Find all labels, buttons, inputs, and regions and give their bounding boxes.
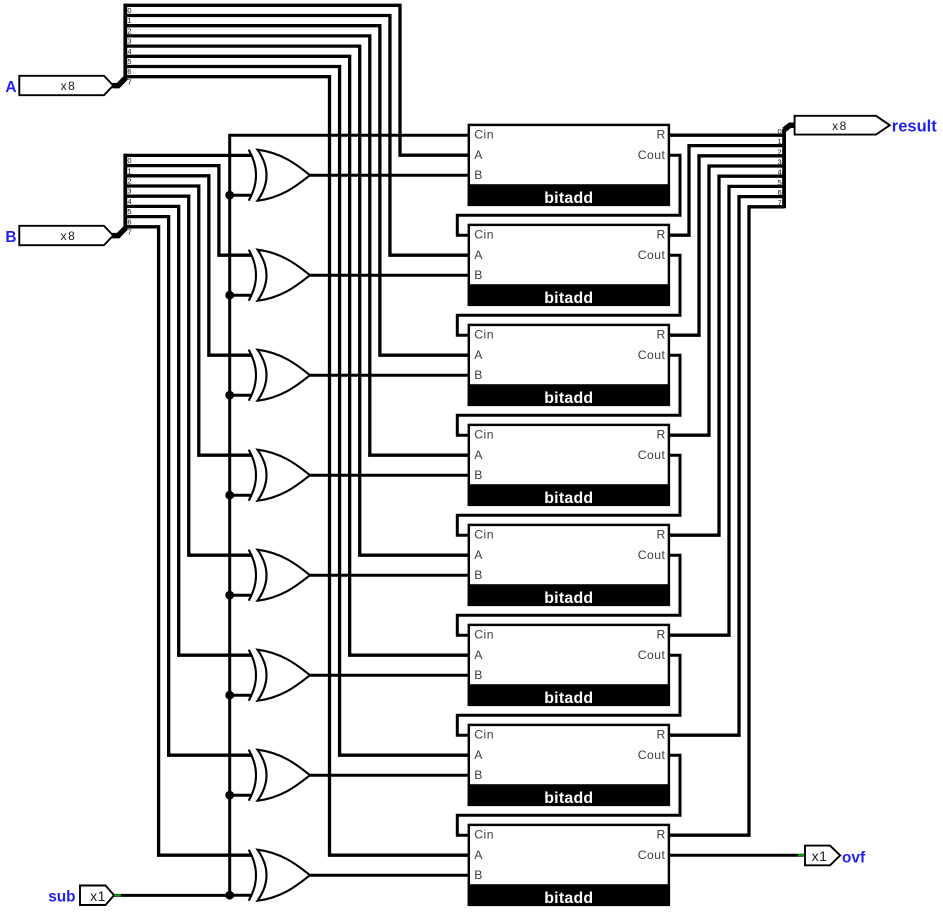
svg-text:4: 4	[127, 197, 131, 206]
wire A4 (splitter to bitadd5 A input)	[124, 46, 470, 555]
sub pin connection point	[114, 894, 121, 896]
wire S5 (XOR X6 output to bitadd6 B input)	[310, 674, 470, 677]
svg-text:0: 0	[127, 156, 131, 165]
splitter A (1 to 8 fan-out)	[112, 4, 126, 86]
junction sub to XOR X3 bottom input	[225, 391, 252, 400]
output pin result (8-bit)	[795, 116, 890, 135]
svg-text:Cout: Cout	[638, 148, 666, 162]
wire C7 (U7 Cout to U8 Cin)	[457, 755, 680, 835]
svg-text:3: 3	[127, 187, 131, 196]
svg-text:7: 7	[777, 198, 781, 207]
svg-text:Cin: Cin	[474, 828, 494, 842]
svg-text:bitadd: bitadd	[544, 190, 593, 207]
pin label ovf	[842, 850, 866, 867]
svg-text:2: 2	[127, 177, 131, 186]
svg-text:ovf: ovf	[842, 850, 866, 867]
wire A7 (splitter to bitadd8 A input)	[124, 77, 470, 856]
svg-text:A: A	[474, 148, 483, 162]
svg-text:1: 1	[777, 137, 781, 146]
svg-text:bitadd: bitadd	[544, 290, 593, 307]
wire C5 (U5 Cout to U6 Cin)	[457, 555, 680, 635]
svg-text:R: R	[656, 228, 665, 242]
svg-text:4: 4	[127, 47, 131, 56]
xor gate X2	[249, 250, 310, 301]
svg-text:R: R	[656, 528, 665, 542]
wire B3 (splitter to XOR X4 top input)	[124, 186, 252, 455]
wire R6 (U7 R output to result splitter)	[668, 197, 784, 736]
wire S2 (XOR X3 output to bitadd3 B input)	[310, 374, 470, 377]
svg-text:x1: x1	[812, 848, 828, 864]
wire R1 (U2 R output to result splitter)	[668, 146, 784, 236]
wire S6 (XOR X7 output to bitadd7 B input)	[310, 774, 470, 777]
svg-text:Cin: Cin	[474, 328, 494, 342]
xor gate X8	[249, 850, 310, 901]
wire A5 (splitter to bitadd6 A input)	[124, 56, 470, 655]
svg-text:x1: x1	[90, 888, 106, 904]
input pin B (8-bit)	[19, 226, 113, 245]
junction sub to XOR X2 bottom input	[225, 291, 252, 300]
svg-text:6: 6	[127, 217, 131, 226]
subcircuit U2 bitadd	[468, 225, 670, 307]
xor gate X4	[249, 450, 310, 501]
wire S4 (XOR X5 output to bitadd5 B input)	[310, 574, 470, 577]
svg-text:5: 5	[127, 57, 131, 66]
svg-text:A: A	[5, 79, 16, 96]
wire OVF (U8 Cout to ovf pin)	[668, 854, 806, 857]
svg-text:sub: sub	[48, 888, 75, 905]
svg-text:bitadd: bitadd	[544, 590, 593, 607]
svg-text:x8: x8	[61, 229, 77, 243]
svg-text:R: R	[656, 828, 665, 842]
wire sub net (sub pin up to bitadd1 Cin)	[113, 135, 469, 895]
wire A1 (splitter to bitadd2 A input)	[124, 16, 470, 256]
junction sub to XOR X7 bottom input	[225, 791, 252, 800]
wire B6 (splitter to XOR X7 top input)	[124, 217, 252, 756]
pin label A	[5, 79, 16, 96]
subcircuit U6 bitadd	[468, 625, 670, 707]
svg-text:bitadd: bitadd	[544, 890, 593, 907]
wire B0 (splitter to XOR X1 top input)	[124, 154, 252, 157]
junction sub to XOR X4 bottom input	[225, 491, 252, 500]
splitter result bit index labels 0-7	[777, 127, 781, 207]
input pin A (8-bit)	[19, 76, 113, 95]
junction sub to XOR X5 bottom input	[225, 591, 252, 600]
svg-text:Cin: Cin	[474, 528, 494, 542]
xor gate X1	[249, 150, 310, 201]
wire R2 (U3 R output to result splitter)	[668, 156, 784, 335]
svg-text:B: B	[474, 468, 482, 482]
splitter B (1 to 8 fan-out)	[112, 154, 126, 236]
ovf pin connection point	[798, 854, 805, 856]
wire B5 (splitter to XOR X6 top input)	[124, 206, 252, 655]
svg-text:R: R	[656, 728, 665, 742]
wire B1 (splitter to XOR X2 top input)	[124, 166, 252, 256]
svg-text:B: B	[474, 768, 482, 782]
svg-text:Cout: Cout	[638, 448, 666, 462]
wire C2 (U2 Cout to U3 Cin)	[457, 255, 680, 335]
svg-text:bitadd: bitadd	[544, 490, 593, 507]
wire C3 (U3 Cout to U4 Cin)	[457, 355, 680, 435]
svg-text:1: 1	[127, 166, 131, 175]
svg-text:x8: x8	[832, 119, 848, 133]
output pin ovf (1-bit)	[805, 846, 840, 866]
input pin sub (1-bit)	[80, 886, 114, 906]
xor gate X6	[249, 650, 310, 701]
wire A0 (splitter to bitadd1 A input)	[124, 5, 470, 155]
svg-text:A: A	[474, 348, 483, 362]
wire A6 (splitter to bitadd7 A input)	[124, 67, 470, 756]
xor gate X7	[249, 750, 310, 801]
svg-text:R: R	[656, 628, 665, 642]
svg-text:B: B	[474, 568, 482, 582]
svg-text:Cin: Cin	[474, 428, 494, 442]
wire C1 (U1 Cout to U2 Cin)	[457, 155, 680, 235]
svg-text:Cout: Cout	[638, 848, 666, 862]
junction sub to XOR X1 bottom input	[225, 191, 252, 200]
wire B2 (splitter to XOR X3 top input)	[124, 176, 252, 355]
wire R3 (U4 R output to result splitter)	[668, 166, 784, 435]
svg-text:3: 3	[127, 37, 131, 46]
splitter result (8 to 1 fan-in)	[784, 125, 796, 208]
wire R5 (U6 R output to result splitter)	[668, 186, 784, 635]
svg-text:A: A	[474, 848, 483, 862]
wire C6 (U6 Cout to U7 Cin)	[457, 655, 680, 735]
pin label result	[892, 118, 937, 136]
svg-text:bitadd: bitadd	[544, 690, 593, 707]
svg-text:R: R	[656, 428, 665, 442]
svg-text:0: 0	[127, 6, 131, 15]
svg-text:Cout: Cout	[638, 748, 666, 762]
xor gate X5	[249, 550, 310, 601]
junction sub to XOR X8 bottom input	[225, 891, 252, 900]
svg-text:7: 7	[127, 77, 131, 86]
svg-text:Cout: Cout	[638, 248, 666, 262]
subcircuit U3 bitadd	[468, 325, 670, 407]
svg-text:4: 4	[777, 168, 781, 177]
junction sub to XOR X6 bottom input	[225, 691, 252, 700]
wire R7 (U8 R output to result splitter)	[668, 207, 784, 835]
wire S0 (XOR X1 output to bitadd1 B input)	[310, 174, 470, 177]
svg-text:B: B	[474, 368, 482, 382]
svg-text:2: 2	[127, 26, 131, 35]
svg-text:A: A	[474, 448, 483, 462]
splitter B bit index labels 0-7	[127, 156, 131, 236]
svg-text:2: 2	[777, 147, 781, 156]
svg-text:B: B	[474, 268, 482, 282]
wire S7 (XOR X8 output to bitadd8 B input)	[310, 874, 470, 877]
subcircuit U7 bitadd	[468, 725, 670, 807]
svg-text:3: 3	[777, 158, 781, 167]
wire R4 (U5 R output to result splitter)	[668, 176, 784, 535]
svg-text:Cin: Cin	[474, 128, 494, 142]
svg-text:6: 6	[127, 67, 131, 76]
svg-text:result: result	[892, 118, 937, 136]
subcircuit U4 bitadd	[468, 425, 670, 507]
xor gate X3	[249, 350, 310, 401]
pin label B	[5, 229, 16, 246]
svg-text:bitadd: bitadd	[544, 790, 593, 807]
svg-text:5: 5	[777, 178, 781, 187]
subcircuit U8 bitadd	[468, 825, 670, 907]
splitter A bit index labels 0-7	[127, 6, 131, 86]
svg-text:Cout: Cout	[638, 648, 666, 662]
svg-text:Cout: Cout	[638, 348, 666, 362]
wire C4 (U4 Cout to U5 Cin)	[457, 455, 680, 535]
svg-text:x8: x8	[61, 79, 77, 93]
wire S3 (XOR X4 output to bitadd4 B input)	[310, 474, 470, 477]
svg-text:Cout: Cout	[638, 548, 666, 562]
svg-text:B: B	[5, 229, 16, 246]
wire B7 (splitter to XOR X8 top input)	[124, 227, 252, 855]
wire S1 (XOR X2 output to bitadd2 B input)	[310, 274, 470, 277]
wire B4 (splitter to XOR X5 top input)	[124, 196, 252, 555]
svg-text:R: R	[656, 328, 665, 342]
svg-text:A: A	[474, 248, 483, 262]
svg-text:B: B	[474, 868, 482, 882]
svg-text:7: 7	[127, 228, 131, 237]
svg-text:B: B	[474, 168, 482, 182]
svg-text:A: A	[474, 748, 483, 762]
subcircuit U5 bitadd	[468, 525, 670, 607]
svg-text:5: 5	[127, 207, 131, 216]
svg-text:B: B	[474, 668, 482, 682]
svg-text:0: 0	[777, 127, 781, 136]
svg-text:Cin: Cin	[474, 628, 494, 642]
svg-text:1: 1	[127, 16, 131, 25]
svg-text:R: R	[656, 128, 665, 142]
svg-text:Cin: Cin	[474, 728, 494, 742]
wire A2 (splitter to bitadd3 A input)	[124, 26, 470, 356]
wire A3 (splitter to bitadd4 A input)	[124, 36, 470, 455]
svg-text:A: A	[474, 648, 483, 662]
svg-text:A: A	[474, 548, 483, 562]
svg-text:6: 6	[777, 188, 781, 197]
wire R0 (U1 R output to result splitter)	[668, 134, 784, 137]
pin label sub	[48, 888, 75, 905]
svg-text:Cin: Cin	[474, 228, 494, 242]
subcircuit U1 bitadd	[468, 125, 670, 207]
svg-text:bitadd: bitadd	[544, 390, 593, 407]
